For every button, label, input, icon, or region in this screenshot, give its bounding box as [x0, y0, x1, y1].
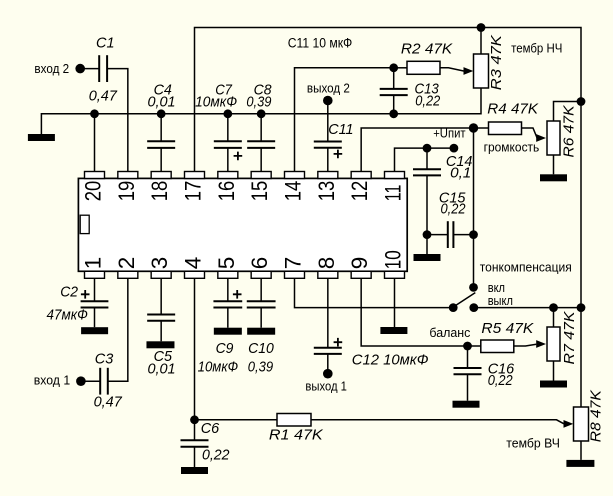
capacitor C15	[448, 221, 454, 248]
IC DA1 body (20-pin audio processor)	[78, 178, 407, 271]
pin 10 number	[380, 250, 405, 269]
label vhod 1	[34, 373, 70, 388]
label C4 value	[148, 95, 176, 111]
wire: top rail from pin 17 to right rail down to R8	[194, 28, 581, 408]
pin 12 rectangle	[351, 172, 371, 179]
ground: R8 ground	[566, 460, 594, 467]
label C7 value	[195, 95, 237, 111]
wire: vykl contact to right rail	[474, 307, 581, 309]
wire: C15 left lead	[427, 234, 448, 236]
svg-text:20: 20	[81, 181, 106, 202]
junction R3 top on rail	[477, 23, 486, 32]
svg-text:7: 7	[280, 257, 305, 270]
junction C13 bottom on bus	[389, 109, 398, 118]
label R4 47K	[487, 102, 539, 118]
svg-text:R1 47K: R1 47K	[269, 428, 324, 444]
junction C15 right on vertical rail	[469, 230, 478, 239]
wire: vhod1 to C3	[81, 380, 100, 382]
capacitor C16	[454, 346, 482, 401]
junction on bus at pin 20	[90, 109, 99, 118]
svg-text:19: 19	[114, 181, 139, 202]
svg-text:R4 47K: R4 47K	[487, 102, 539, 118]
pin 3 number	[147, 257, 172, 270]
node: switch vkl contact	[469, 283, 478, 292]
ground: C16 ground	[453, 401, 480, 408]
label R3 47K rotated	[489, 34, 505, 90]
pin 16 number	[214, 181, 239, 202]
svg-text:8: 8	[314, 257, 339, 270]
pin 9 rectangle	[351, 271, 371, 278]
pin 7 number	[280, 257, 305, 270]
capacitor C8 with leads	[247, 114, 275, 172]
ground: pin 10 ground	[380, 327, 407, 334]
wire: pin 14 riser to node A (R2/C13)	[294, 68, 393, 172]
resistor R1	[277, 414, 311, 427]
svg-text:1: 1	[81, 257, 106, 270]
junction on bus at C7	[223, 109, 232, 118]
pin 8 number	[314, 257, 339, 270]
resistor R4	[489, 122, 522, 135]
pin 1 number	[81, 257, 106, 270]
svg-text:14: 14	[280, 181, 305, 202]
svg-text:10: 10	[380, 250, 405, 269]
label C6 value 0,22	[202, 447, 230, 463]
label tembr NCh	[511, 40, 562, 55]
label vyhod 2	[307, 81, 350, 96]
svg-text:10мкФ: 10мкФ	[195, 95, 237, 111]
svg-text:15: 15	[247, 181, 272, 202]
label vyhod 1	[305, 379, 347, 394]
junction C15 left	[423, 230, 432, 239]
label C10	[248, 341, 274, 357]
svg-text:громкость: громкость	[484, 140, 540, 155]
svg-text:5: 5	[214, 257, 239, 270]
svg-text:6: 6	[247, 257, 272, 270]
label tonkompensacia	[480, 260, 572, 275]
label C5 value 0,01	[148, 361, 176, 377]
svg-text:3: 3	[147, 257, 172, 270]
svg-text:+Uпит: +Uпит	[433, 125, 465, 140]
capacitor C10 with leads	[247, 278, 276, 327]
label balans	[429, 325, 470, 340]
ground: R7 ground	[540, 381, 567, 388]
label C3	[95, 352, 114, 368]
pin 19 rectangle	[118, 172, 138, 179]
svg-text:10мкФ: 10мкФ	[198, 360, 239, 376]
svg-text:17: 17	[180, 181, 205, 202]
wire: R4 wiper lead to R6	[522, 128, 538, 138]
pin 14 number	[280, 181, 305, 202]
svg-text:C6: C6	[201, 421, 220, 437]
label C10 value 0,39	[248, 360, 273, 376]
svg-text:C9: C9	[216, 341, 234, 357]
wire: R8 bottom to ground	[580, 441, 582, 460]
wire: C11 to pin 13	[327, 148, 329, 172]
label C15 value 0,22	[441, 201, 466, 217]
wire: R1 line to R8	[194, 420, 563, 424]
label C9 value 10мкФ	[198, 360, 239, 376]
svg-text:C11: C11	[328, 122, 353, 138]
potentiometer R6	[547, 121, 560, 155]
label C3 value 0,47	[94, 395, 123, 411]
svg-text:0,22: 0,22	[202, 447, 230, 463]
pin 4 number	[180, 257, 205, 270]
wire: pin 9 riser to balance line	[361, 278, 481, 346]
wire: node A to R2	[394, 67, 407, 69]
label C16	[488, 361, 515, 377]
label R1 47K	[269, 428, 324, 444]
wire: R2 wiper lead to R3	[440, 68, 464, 71]
pin 18 number	[147, 181, 172, 202]
pin 18 rectangle	[151, 172, 171, 179]
wire: pin 10 to ground	[393, 278, 395, 327]
wire: pin 4 riser down to C6	[193, 278, 195, 440]
label C12 10мкФ	[352, 353, 429, 369]
svg-text:выход 2: выход 2	[307, 81, 350, 96]
label C1	[96, 36, 115, 52]
label C6	[201, 421, 220, 437]
resistor R5	[481, 340, 514, 353]
ground: C10 ground	[247, 328, 275, 335]
pin 1 rectangle	[85, 271, 105, 278]
capacitor C14	[413, 148, 441, 254]
resistor R2	[407, 61, 440, 74]
pin 12 number	[347, 181, 372, 202]
wire: pin 11 riser to C14 node	[394, 148, 453, 171]
svg-text:9: 9	[347, 257, 372, 270]
svg-text:R5 47K: R5 47K	[481, 321, 534, 337]
pin 6 number	[247, 257, 272, 270]
label C7	[215, 82, 233, 98]
svg-text:вход 1: вход 1	[34, 373, 70, 388]
pin 11 number	[380, 185, 405, 202]
svg-text:0,22: 0,22	[415, 94, 440, 110]
svg-text:тембр НЧ: тембр НЧ	[511, 40, 562, 55]
capacitor C13	[380, 68, 408, 114]
pin 15 rectangle	[251, 172, 271, 179]
svg-text:11: 11	[380, 185, 405, 202]
label vhod 2	[34, 61, 69, 76]
pin 13 rectangle	[318, 172, 338, 179]
node: switch pole	[449, 303, 458, 312]
label C8 value	[246, 95, 271, 111]
junction on bus at C8	[257, 109, 266, 118]
wire: vyhod2 to C11	[327, 101, 329, 142]
svg-text:выход 1: выход 1	[305, 379, 347, 394]
arrow to R3 wiper	[464, 67, 474, 75]
ground: C5 ground	[146, 341, 174, 348]
svg-text:R7 47K: R7 47K	[562, 310, 578, 364]
junction right rail on line	[577, 303, 586, 312]
capacitor C9 polarized with leads	[213, 278, 242, 327]
junction on bus at C4	[157, 109, 166, 118]
pin 10 rectangle	[384, 271, 404, 278]
pin 13 number	[314, 181, 339, 202]
svg-text:2: 2	[114, 257, 139, 270]
label C13 value 0,22	[415, 94, 440, 110]
junction C14 top	[423, 144, 432, 153]
svg-text:тембр ВЧ: тембр ВЧ	[506, 436, 560, 451]
svg-text:47мкФ: 47мкФ	[47, 307, 88, 323]
label C13	[415, 81, 439, 97]
capacitor C11 polarized	[314, 142, 342, 159]
label C9	[216, 341, 234, 357]
wire: pin 7 riser to switch pole	[294, 278, 453, 307]
pin 3 rectangle	[151, 271, 171, 278]
svg-text:баланс: баланс	[429, 325, 470, 340]
pin 14 rectangle	[284, 172, 304, 179]
pin 20 rectangle	[85, 172, 105, 179]
svg-text:18: 18	[147, 181, 172, 202]
label C4	[154, 82, 172, 98]
pin 7 rectangle	[284, 271, 304, 278]
pin 9 number	[347, 257, 372, 270]
svg-text:вход 2: вход 2	[34, 61, 69, 76]
wire: R5 wiper lead to R7	[514, 344, 537, 346]
label R7 47K rotated	[562, 310, 578, 364]
pin 2 number	[114, 257, 139, 270]
junction R7 top on line	[549, 303, 558, 312]
wire: main ground bus	[41, 88, 481, 134]
svg-text:0,01: 0,01	[148, 361, 176, 377]
pin 17 rectangle	[184, 172, 204, 179]
svg-text:0,1: 0,1	[450, 166, 471, 182]
label R2 47K	[401, 42, 454, 58]
label R5 47K	[481, 321, 534, 337]
capacitor C1	[99, 55, 107, 82]
label C15	[439, 190, 466, 206]
capacitor C3	[100, 368, 108, 395]
node: vyhod 2 terminal	[323, 96, 333, 106]
label vkl	[488, 280, 505, 295]
wire: vhod2 to C1	[80, 68, 99, 70]
pin 19 number	[114, 181, 139, 202]
pin 16 rectangle	[218, 172, 238, 179]
svg-text:4: 4	[180, 257, 205, 270]
label gromkost	[484, 140, 540, 155]
pin 20 number	[81, 181, 106, 202]
wire: pin 20 stub to bus	[94, 114, 96, 172]
svg-text:R6 47K: R6 47K	[562, 104, 578, 157]
capacitor C2 polarized with leads	[81, 278, 109, 327]
svg-text:0,39: 0,39	[248, 360, 273, 376]
ground: bus left ground	[28, 134, 55, 141]
wire: R6 bottom to ground	[553, 155, 555, 174]
svg-text:выкл: выкл	[488, 293, 513, 308]
svg-text:12: 12	[347, 181, 372, 202]
junction C6/R1 node	[190, 415, 199, 424]
node: stub end dot	[450, 144, 459, 153]
svg-text:C2: C2	[60, 284, 78, 300]
label vykl	[488, 293, 513, 308]
svg-text:0,22: 0,22	[488, 373, 513, 389]
label C2	[60, 284, 78, 300]
node: vhod 1 terminal	[76, 376, 86, 386]
node: vyhod 1 terminal	[323, 369, 333, 379]
wire: pin 12 riser to +Upit line and R4	[361, 128, 488, 172]
svg-text:R8 47K: R8 47K	[588, 389, 604, 442]
pin 2 rectangle	[118, 271, 138, 278]
pin 5 rectangle	[218, 271, 238, 278]
label C16 value 0,22	[488, 373, 513, 389]
wire: line to R7 top	[553, 308, 555, 327]
label tembr VCh	[506, 436, 560, 451]
capacitor C6	[180, 440, 208, 467]
svg-text:16: 16	[214, 181, 239, 202]
node: vhod 2 terminal	[75, 64, 85, 74]
svg-text:тонкомпенсация: тонкомпенсация	[480, 260, 572, 275]
pin 4 rectangle	[184, 271, 204, 278]
ground: C14 ground	[414, 254, 441, 261]
pin 8 rectangle	[318, 271, 338, 278]
svg-text:0,39: 0,39	[246, 95, 271, 111]
arrow to R8 wiper	[564, 420, 574, 428]
potentiometer R7	[547, 327, 560, 361]
wire: rail to R3 top	[480, 28, 482, 55]
svg-text:R2 47K: R2 47K	[401, 42, 454, 58]
label C14 value 0,1	[450, 166, 471, 182]
label C1 value 0,47	[89, 88, 118, 104]
junction R6 wire on rail	[577, 97, 586, 106]
label R6 47K rotated	[562, 104, 578, 157]
label C5	[154, 349, 173, 365]
pin 15 number	[247, 181, 272, 202]
svg-text:0,01: 0,01	[148, 95, 176, 111]
arrow to R7 wiper	[536, 340, 546, 348]
label C11	[328, 122, 353, 138]
potentiometer R8	[574, 407, 589, 441]
pin 6 rectangle	[251, 271, 271, 278]
wire: C3 to pin 2	[108, 278, 128, 381]
wire: C15 right lead	[453, 234, 473, 236]
ground: R6 ground	[540, 174, 567, 181]
svg-text:C10: C10	[248, 341, 274, 357]
capacitor C7 with leads	[214, 114, 242, 172]
label R8 47K rotated	[588, 389, 604, 442]
label C8	[254, 82, 272, 98]
svg-text:0,47: 0,47	[94, 395, 123, 411]
wire: rail to R6 top	[554, 102, 582, 122]
svg-text:C12 10мкФ: C12 10мкФ	[352, 353, 429, 369]
label C14	[446, 154, 473, 170]
wire: R7 bottom to ground	[553, 361, 555, 381]
svg-text:0,22: 0,22	[441, 201, 466, 217]
potentiometer R3	[474, 54, 489, 88]
node +Upit junction	[469, 123, 478, 132]
label +Upit	[433, 125, 465, 140]
arrow to R6 wiper	[536, 134, 546, 142]
node: switch vykl contact	[469, 303, 478, 312]
junction balance node	[463, 342, 472, 351]
capacitor C12 polarized with lead from pin 8	[314, 278, 342, 373]
svg-text:С11 10 мкФ: С11 10 мкФ	[288, 35, 353, 50]
pin 11 rectangle	[384, 172, 404, 179]
node A junction (pin14 rail, R2, C13)	[389, 63, 398, 72]
wire: C1 to pin 19	[107, 69, 128, 172]
svg-text:0,47: 0,47	[89, 88, 118, 104]
ground: C9 ground	[214, 328, 242, 335]
label C2 value 47мкФ	[47, 307, 88, 323]
pin 5 number	[214, 257, 239, 270]
svg-text:C3: C3	[95, 352, 114, 368]
capacitor C5 with leads	[147, 278, 175, 341]
svg-text:R3 47K: R3 47K	[489, 34, 505, 90]
svg-text:13: 13	[314, 181, 339, 202]
capacitor C4 with leads	[147, 114, 175, 172]
pin 17 number	[180, 181, 205, 202]
switch lever	[455, 293, 475, 306]
ground: C6 ground	[181, 467, 208, 474]
label C11 10 мкФ top note	[288, 35, 353, 50]
ground: C2 ground	[81, 327, 108, 334]
wire: +Upit vertical rail down to switch	[473, 128, 475, 287]
svg-text:C1: C1	[96, 36, 115, 52]
